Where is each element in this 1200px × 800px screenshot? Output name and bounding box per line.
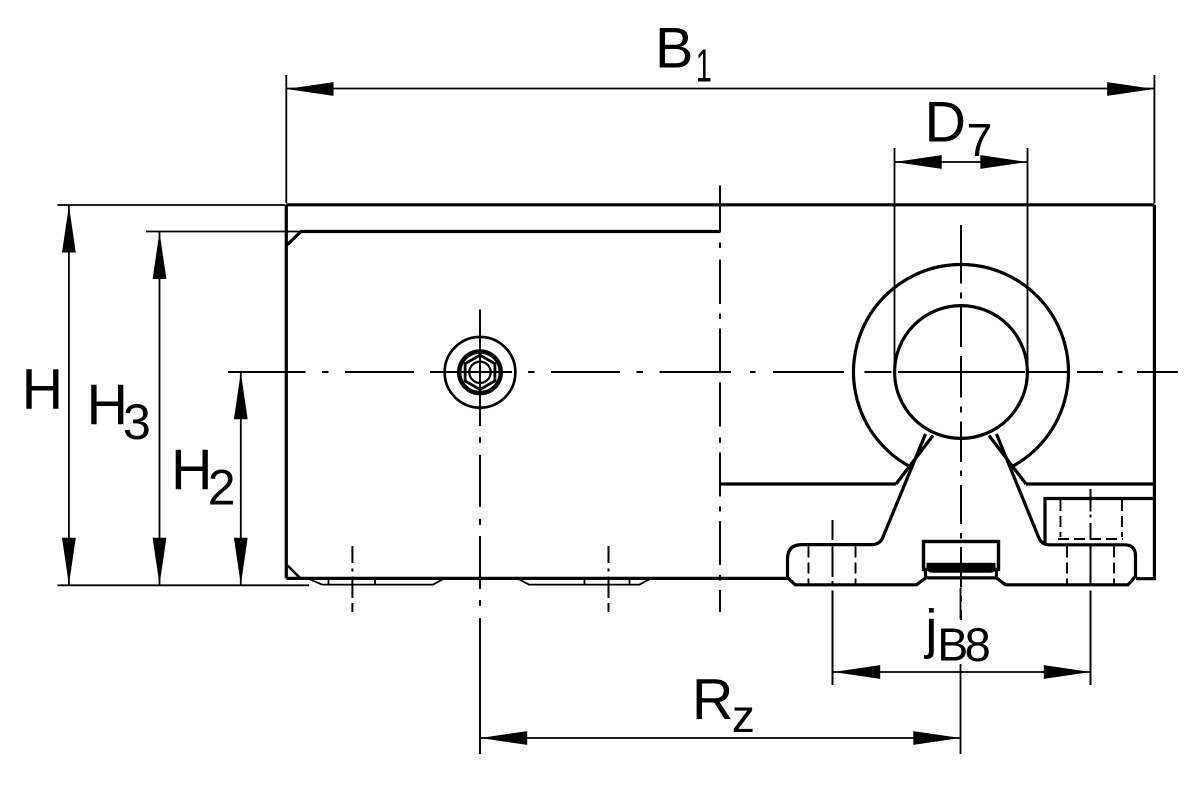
step face line left of slit xyxy=(720,482,896,485)
B1 right arrowhead xyxy=(1107,82,1154,96)
clamp slit right outer edge + right ear outline xyxy=(997,434,1136,585)
bottom recess left xyxy=(308,578,445,584)
step face line right of slit xyxy=(1026,482,1154,485)
svg-text:R: R xyxy=(692,668,734,732)
svg-text:j: j xyxy=(923,598,937,660)
bottom recess right xyxy=(518,578,652,584)
right ear bolt axis xyxy=(1090,489,1092,685)
H2 top arrowhead xyxy=(234,372,248,419)
slot saw-cut underline xyxy=(928,569,996,572)
screw thread inner circle xyxy=(469,362,490,383)
screw hex socket xyxy=(465,355,495,389)
clamp screw pocket xyxy=(1045,499,1154,545)
clamp slot block xyxy=(924,542,999,570)
left foot hole axis xyxy=(351,546,353,612)
dimension Rz right extension xyxy=(960,588,962,754)
dimension H3 extension line top xyxy=(146,231,300,233)
top face inner edge with chamfer xyxy=(288,232,721,245)
svg-text:H: H xyxy=(87,373,129,437)
svg-text:7: 7 xyxy=(967,114,993,166)
bore outer circle (boss) xyxy=(854,265,1069,468)
D7 right arrowhead xyxy=(980,155,1027,169)
recess right hole edges xyxy=(585,578,630,584)
slot block bottom edge xyxy=(926,576,997,579)
right foot hole axis xyxy=(608,546,610,612)
clamp slit right inner edge xyxy=(989,436,1026,485)
right ear hidden bolt hole xyxy=(1067,547,1114,585)
clamp slit left inner edge xyxy=(896,436,933,485)
horizontal centre line xyxy=(228,371,1178,373)
dimension Rz line xyxy=(480,737,961,739)
housing main outline xyxy=(286,205,1154,579)
jB8 right arrowhead xyxy=(1044,665,1091,679)
dimension jB8 line xyxy=(833,671,1091,673)
bore vertical centre line xyxy=(960,225,962,620)
svg-text:2: 2 xyxy=(208,460,236,516)
svg-text:1: 1 xyxy=(696,41,712,92)
clamp slot gap (filled) xyxy=(927,563,996,570)
dimension H3 line xyxy=(159,232,161,586)
dimension D7 extension lines xyxy=(895,148,1028,370)
svg-text:z: z xyxy=(732,690,755,742)
pocket hidden counterbore xyxy=(1058,500,1123,539)
bottom-left corner chamfer xyxy=(288,566,301,579)
jB8 left arrowhead xyxy=(833,665,880,679)
svg-text:B: B xyxy=(655,17,693,81)
D7 left arrowhead xyxy=(895,155,942,169)
Rz left arrowhead xyxy=(480,731,527,745)
svg-text:H: H xyxy=(22,358,64,422)
screw head outer circle xyxy=(445,337,516,408)
mounting baseline xyxy=(58,584,310,586)
screw head socket circle xyxy=(459,352,501,394)
B1 left arrowhead xyxy=(287,82,334,96)
dimension H line xyxy=(68,205,70,585)
svg-text:H: H xyxy=(171,438,213,502)
left ear bolt axis xyxy=(832,520,834,685)
svg-text:3: 3 xyxy=(123,394,151,450)
svg-text:D: D xyxy=(925,91,967,155)
Rz right arrowhead xyxy=(913,731,960,745)
screw vertical centre line / Rz left extension xyxy=(479,310,481,755)
dimension D7 line xyxy=(895,161,1028,163)
recess left hole edges xyxy=(329,578,376,584)
dimension B1 extension lines xyxy=(286,75,1154,203)
dimension B1 line xyxy=(286,88,1154,90)
section boundary centre line xyxy=(719,186,721,613)
dimension H2 line xyxy=(240,372,242,586)
left ear hidden bolt hole xyxy=(809,547,856,585)
svg-text:8: 8 xyxy=(965,618,991,671)
H2 bottom arrowhead xyxy=(234,538,248,585)
H3 top arrowhead xyxy=(153,232,167,279)
bore inner circle xyxy=(895,306,1028,439)
clamp slit left outer edge + left ear outline xyxy=(788,434,926,585)
H bottom arrowhead xyxy=(62,538,76,585)
H top arrowhead xyxy=(62,206,76,253)
H3 bottom arrowhead xyxy=(153,538,167,585)
dimension H extension line top xyxy=(58,204,286,206)
